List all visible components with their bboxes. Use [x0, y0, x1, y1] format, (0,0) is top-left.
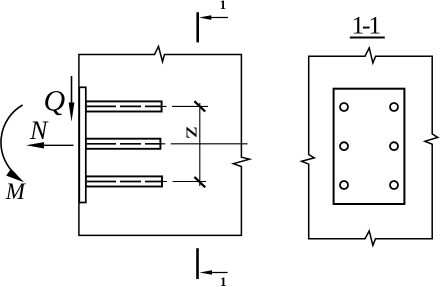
bolt 2 centerline extension past column edge: [160, 143, 247, 145]
bolt hole B1: [340, 142, 348, 150]
bolt 1 centerline extension to dimension line: [162, 105, 209, 107]
moment M arc arrow: [1, 105, 23, 175]
anchor bolt 1 (top): [86, 101, 162, 111]
bolt hole A2: [390, 103, 398, 111]
bolt 2 centerline (inside shank, dashed): [87, 143, 160, 145]
section cut mark 1 (top): view-direction arrow: [205, 17, 228, 19]
bolt 3 centerline (inside shank, dashed): [87, 181, 162, 183]
dimension tick (bottom): [194, 177, 205, 187]
bolt hole B2: [390, 142, 398, 150]
svg-text:1-1: 1-1: [351, 11, 380, 40]
svg-text:M: M: [5, 179, 27, 204]
bolt hole C1: [340, 181, 348, 189]
anchor bolt 3 (bottom): [86, 176, 162, 186]
concrete column outline (right section 1-1) with four break marks: [302, 48, 438, 246]
bolt 3 centerline extension to dimension line: [162, 181, 206, 183]
force N arrow (horizontal, leftward): [42, 144, 74, 146]
svg-text:1: 1: [220, 0, 227, 12]
bolt 1 centerline (inside shank, dashed): [87, 105, 162, 107]
bolt hole C2: [390, 181, 398, 189]
svg-text:1: 1: [220, 274, 227, 287]
anchor bolt 2 (middle): [86, 139, 161, 149]
section cut mark 1 (bottom): view-direction arrow: [205, 272, 228, 274]
section cut mark 1 (top): thick stroke: [196, 12, 199, 42]
section cut mark 1 (bottom): thick stroke: [196, 248, 199, 279]
concrete column outline (left section view) with break marks: [79, 46, 250, 235]
force Q arrow (vertical, downward): [71, 76, 73, 106]
title underline: [350, 37, 385, 39]
dimension line z (vertical): [199, 103, 201, 186]
bolt hole A1: [340, 103, 348, 111]
svg-text:N: N: [29, 116, 49, 145]
end plate: [79, 87, 86, 202]
base plate (section 1-1): [334, 89, 405, 204]
svg-text:Q: Q: [44, 84, 66, 117]
dimension tick (top): [194, 101, 205, 111]
svg-text:z: z: [181, 126, 206, 138]
